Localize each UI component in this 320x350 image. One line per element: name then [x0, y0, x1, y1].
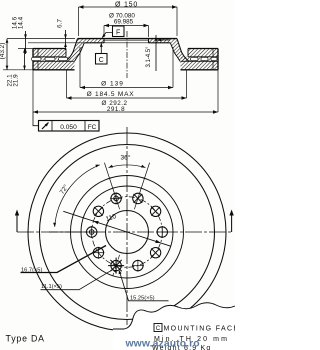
front view hat circle [81, 186, 173, 278]
svg-text:36°: 36° [121, 154, 131, 162]
36 deg arc + arrows [109, 165, 146, 168]
horizontal centerline / section line [17, 231, 232, 233]
svg-text:C: C [99, 57, 104, 64]
ring bottom extension left [3, 69, 33, 71]
datum C box [96, 54, 108, 65]
section: hat flange left hatch [78, 39, 105, 43]
svg-text:FC: FC [88, 124, 97, 131]
front view outermost circle [28, 133, 226, 331]
sectioned hole (star) at 198 deg [111, 260, 121, 270]
bolt hole (cross) at 126 deg [150, 248, 160, 258]
section: right vent row hatched background [181, 57, 218, 62]
radial line to hole 342 [104, 163, 119, 210]
dim 3.1-4.5 deg lines [155, 35, 157, 71]
72 deg arc + arrows [55, 165, 100, 227]
ring top extension left [18, 48, 33, 50]
bolt hole (cross) at 306 deg [93, 206, 103, 216]
svg-text:www.azauto.ro: www.azauto.ro [125, 339, 200, 350]
section: left skirt outline [66, 39, 78, 62]
front view ring inner circle [71, 176, 184, 289]
section: left skirt hatched [66, 39, 85, 62]
counterbored hole at 342 deg [111, 193, 121, 203]
hole at 90 deg [157, 227, 167, 237]
section: right ring top rail hatch [188, 49, 218, 57]
svg-text:21.9: 21.9 [13, 74, 20, 87]
section: mounting face line [78, 38, 178, 40]
svg-text:11.1(×5): 11.1(×5) [41, 284, 62, 290]
section: bore edge right [148, 39, 150, 43]
svg-text:Ø 150: Ø 150 [115, 1, 138, 8]
svg-text:C: C [156, 325, 161, 332]
svg-text:Type DA: Type DA [6, 334, 45, 344]
section: bore edge left [103, 39, 105, 43]
datum C box (note) [154, 324, 162, 332]
dim 22.1/21.9 line + arrows [24, 49, 26, 70]
section: right ring outline [188, 48, 218, 50]
svg-text:3.1-4.5°: 3.1-4.5° [146, 46, 152, 68]
section: right skirt outline [177, 39, 189, 62]
dim Ø139 extension lines [79, 47, 81, 88]
dim 6.7 vertical + arrows [65, 30, 67, 50]
counterbored hole at 270 deg [87, 227, 97, 237]
svg-text:6.7: 6.7 [57, 19, 64, 28]
hole at 162 deg [133, 260, 143, 270]
runout FCF box [39, 121, 100, 132]
dim Ø292.2 extension lines [32, 70, 34, 112]
front view disc outer circle [40, 145, 215, 320]
label 16.7 underline + leader [21, 246, 107, 273]
mounting face extension line to left [7, 38, 75, 40]
svg-text:(43.2): (43.2) [0, 43, 6, 60]
section: vertical centerline axis [126, 31, 128, 78]
svg-text:14.4: 14.4 [18, 16, 25, 29]
svg-text:291.8: 291.8 [107, 106, 125, 113]
svg-text:MOUNTING FACE: MOUNTING FACE [164, 326, 236, 333]
section: right ring bottom rail hatch [181, 61, 219, 70]
dim Ø184.5 extension lines [66, 70, 68, 98]
section: left ring top rail hatch [33, 49, 66, 57]
break line wavy + white note area [113, 303, 235, 350]
svg-text:Ø 139: Ø 139 [101, 81, 124, 88]
dim Ø150 extension lines [78, 7, 80, 36]
section: right skirt hatched [170, 39, 189, 62]
dim Ø292.2/291.8 line + arrows [33, 111, 218, 113]
dim Ø70 extension lines [103, 26, 105, 38]
front view bolt circle dash-dot [92, 197, 163, 268]
hole at 234 deg [93, 248, 103, 258]
datum F leader [102, 33, 112, 38]
dim 14.6/14.4 line + arrows [25, 31, 27, 54]
datum C leader [100, 43, 102, 53]
bolt hole (cross) at 18 deg [133, 193, 143, 203]
radial dash-dot through sectioned hole [113, 255, 120, 276]
section: bore inner lines [104, 39, 149, 41]
dim Ø139 line + arrows [80, 87, 173, 89]
runout FCF leader [33, 112, 39, 126]
dim Ø184.5 MAX line + arrows [67, 97, 187, 99]
dim (43.2) line + arrows [6, 39, 8, 70]
section: left ring bottom rail hatch [33, 61, 75, 70]
vertical centerline [126, 127, 128, 325]
datum F box [113, 26, 125, 37]
section: flange bottom left line [84, 42, 104, 44]
front view center bore circle [106, 211, 149, 254]
flange bottom extension line [28, 42, 84, 44]
radial line to hole 270 [49, 231, 86, 233]
section: right vent white slots [191, 57, 199, 60]
section: left vent white slots [32, 57, 42, 60]
section: left ring outline [33, 48, 66, 50]
section: hat flange right hatch [149, 39, 178, 43]
radial line to hole 18 [134, 163, 149, 210]
section: left vent row hatched background [33, 57, 71, 62]
svg-text:69.985: 69.985 [114, 19, 134, 26]
dim Ø150 line + arrows [79, 6, 178, 8]
label 11.1 underline + leader [41, 270, 112, 289]
label 15.25 underline + leader [120, 273, 169, 301]
section direction arrow right [231, 213, 233, 232]
runout symbol arrow [42, 123, 49, 130]
dim Ø110 line through center [63, 211, 170, 246]
svg-text:0.050: 0.050 [60, 124, 77, 131]
section: flange bottom right line [149, 42, 171, 44]
section direction arrow left [16, 213, 18, 232]
svg-text:F: F [116, 29, 120, 36]
bolt hole (cross) at 54 deg [150, 206, 160, 216]
dim Ø70.080/69.985 line + arrows [104, 25, 149, 27]
svg-text:Ø 184.5 MAX: Ø 184.5 MAX [87, 91, 135, 98]
